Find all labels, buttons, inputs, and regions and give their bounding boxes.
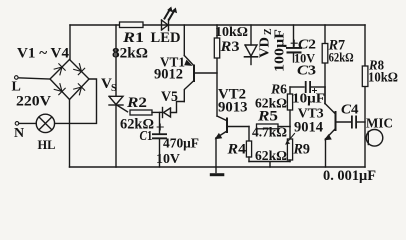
svg-text:S: S xyxy=(111,83,117,94)
diode V1 (top-left) xyxy=(54,64,65,75)
svg-text:10μF: 10μF xyxy=(292,92,325,107)
svg-text:220V: 220V xyxy=(16,94,51,110)
wire V5 up to VT1 collector node xyxy=(171,102,185,113)
wire N to lamp xyxy=(19,122,36,124)
wire top rail xyxy=(70,24,365,26)
svg-text:10kΩ: 10kΩ xyxy=(368,70,398,85)
ground xyxy=(210,167,225,176)
diode V5 xyxy=(163,108,171,118)
svg-text:R3: R3 xyxy=(219,39,239,55)
svg-text:R1: R1 xyxy=(122,30,144,46)
svg-text:62kΩ: 62kΩ xyxy=(329,50,354,65)
capacitor C3 xyxy=(290,81,325,93)
wire R2 to V5 xyxy=(152,111,163,113)
svg-text:N: N xyxy=(14,126,24,141)
svg-text:R2: R2 xyxy=(126,95,147,111)
svg-text:0. 001μF: 0. 001μF xyxy=(323,168,376,184)
wire L to bridge xyxy=(18,78,50,79)
svg-text:R4: R4 xyxy=(226,142,246,158)
svg-text:100μF: 100μF xyxy=(273,29,288,72)
LED D1 xyxy=(162,7,178,31)
resistor R5 xyxy=(257,124,291,129)
svg-text:HL: HL xyxy=(38,137,56,152)
wire bottom rail xyxy=(70,166,366,168)
resistor R3 line xyxy=(216,25,218,116)
resistor R2 xyxy=(130,110,152,115)
diode bridge V1~V4 diamond xyxy=(50,60,89,100)
svg-text:C4: C4 xyxy=(341,103,359,118)
svg-text:MIC: MIC xyxy=(366,117,393,132)
svg-text:4.7kΩ: 4.7kΩ xyxy=(252,126,287,141)
svg-text:V5: V5 xyxy=(161,89,178,105)
wire bridge bottom vertical xyxy=(69,100,71,168)
wire R4/R9 bottom connector xyxy=(249,162,290,168)
svg-text:L: L xyxy=(12,80,21,95)
thyristor VS xyxy=(109,96,128,112)
wire bridge top vertical xyxy=(69,25,71,60)
svg-text:62kΩ: 62kΩ xyxy=(255,149,287,164)
svg-text:C1: C1 xyxy=(140,129,153,144)
diode V4 (bottom-right) xyxy=(74,84,85,95)
svg-text:C3: C3 xyxy=(297,64,316,79)
thyristor VS vertical line xyxy=(115,25,117,167)
capacitor C1 xyxy=(152,112,167,167)
svg-text:R9: R9 xyxy=(293,142,310,158)
resistor R8 xyxy=(362,66,368,87)
zener VDz xyxy=(245,25,258,65)
svg-text:9013: 9013 xyxy=(218,100,248,116)
resistor R1 xyxy=(120,22,144,28)
svg-text:9012: 9012 xyxy=(154,67,183,83)
resistor R7 xyxy=(322,44,328,64)
diode V3 (bottom-left) xyxy=(54,84,65,95)
svg-text:R5: R5 xyxy=(257,109,278,125)
svg-text:LED: LED xyxy=(151,30,181,46)
capacitor C2 xyxy=(286,25,302,62)
transistor VT2 9013 xyxy=(215,116,249,167)
svg-text:R6: R6 xyxy=(270,83,287,98)
svg-text:470μF: 470μF xyxy=(163,137,199,152)
microphone MIC xyxy=(366,130,383,147)
wire lamp to bridge right xyxy=(55,79,97,123)
lamp HL xyxy=(36,114,54,132)
transistor VT1 9012 xyxy=(184,25,217,102)
node L terminal xyxy=(14,76,18,80)
svg-text:82kΩ: 82kΩ xyxy=(112,46,148,62)
svg-text:9014: 9014 xyxy=(294,120,323,136)
resistor R6 xyxy=(287,87,292,127)
svg-text:10kΩ: 10kΩ xyxy=(215,25,248,40)
resistor R8 line xyxy=(364,25,366,167)
resistor R7 line xyxy=(324,25,326,104)
resistor R4 xyxy=(246,127,251,162)
node N terminal xyxy=(15,122,19,126)
transistor VT3 9014 xyxy=(324,87,351,167)
diode V2 (top-right) xyxy=(74,64,85,75)
resistor R3 xyxy=(214,38,219,58)
svg-text:V1 ~ V4: V1 ~ V4 xyxy=(17,46,69,62)
resistor R9 xyxy=(285,127,294,162)
capacitor C4 xyxy=(351,116,365,129)
svg-text:VD: VD xyxy=(258,37,273,58)
svg-text:10V: 10V xyxy=(156,152,180,167)
